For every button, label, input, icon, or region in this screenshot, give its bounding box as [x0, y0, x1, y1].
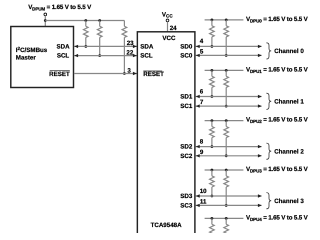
- wire SC1: [196, 105, 262, 107]
- junction VDPUM rail tap: [44, 19, 47, 22]
- svg-text:11: 11: [200, 198, 207, 205]
- svg-text:Channel 1: Channel 1: [274, 99, 304, 106]
- junction ch0 SD: [211, 45, 214, 48]
- junction ch3 SD pull-up top: [211, 169, 214, 172]
- resistor R2 (SCL pull-up): [97, 21, 102, 56]
- wire VDPUM rail: [45, 20, 124, 22]
- junction ch1 SD: [211, 95, 214, 98]
- arrow SC2 into pin 9: [196, 154, 200, 157]
- junction ch0 SD pull-up top: [211, 19, 214, 22]
- junction ch1 SD pull-up top: [211, 69, 214, 72]
- resistor R1 (SDA pull-up): [84, 21, 89, 47]
- svg-text:SC0: SC0: [180, 52, 193, 59]
- terminal VDPUM: [44, 13, 47, 16]
- arrow RESET into pin 3: [133, 72, 137, 75]
- arrow SCL into master: [74, 54, 78, 57]
- resistor R3 (RESET pull-up): [122, 21, 127, 74]
- junction R1 top: [84, 19, 87, 22]
- junction ch0 SC pull-up top: [225, 19, 228, 22]
- arrow SD0 into pin 4: [196, 45, 200, 48]
- svg-text:RESET: RESET: [49, 71, 70, 78]
- junction ch3 SD: [211, 195, 214, 198]
- wire VDPU2 rail: [205, 120, 244, 122]
- TCA9548A box: [137, 32, 195, 238]
- wire VDPU1 rail: [205, 69, 244, 71]
- junction R3-RESET: [123, 72, 126, 75]
- resistor ch3 SD pull-up: [210, 170, 215, 196]
- wire SC2: [196, 155, 262, 157]
- arrow SC1 into pin 7: [196, 104, 200, 107]
- svg-text:22: 22: [126, 50, 133, 57]
- svg-text:6: 6: [200, 88, 204, 95]
- arrow SCL into pin 22: [133, 54, 137, 57]
- wire SD3: [196, 195, 262, 197]
- svg-text:TCA9548A: TCA9548A: [151, 222, 182, 229]
- svg-text:SDA: SDA: [140, 43, 154, 50]
- terminal VCC: [166, 19, 169, 22]
- junction ch1 SC: [225, 105, 228, 108]
- svg-text:8: 8: [200, 138, 204, 145]
- resistor ch3 SC pull-up: [224, 170, 229, 205]
- arrow SC3 to channel: [258, 204, 262, 207]
- wire SD0: [196, 45, 262, 47]
- svg-text:Channel 3: Channel 3: [274, 198, 304, 205]
- junction ch3 SC pull-up top: [225, 169, 228, 172]
- svg-text:4: 4: [200, 38, 204, 45]
- brace channel 0: [266, 43, 271, 59]
- arrow SD1 into pin 6: [196, 95, 200, 98]
- svg-text:24: 24: [170, 25, 177, 32]
- junction ch2 SD: [211, 145, 214, 148]
- svg-text:9: 9: [200, 149, 204, 156]
- brace channel 2: [266, 143, 271, 159]
- junction ch4 SC pull-up top: [225, 217, 228, 220]
- brace channel 3: [266, 193, 271, 209]
- junction R2-SCL: [98, 54, 101, 57]
- arrow SD0 to channel: [258, 45, 262, 48]
- junction ch2 SC pull-up top: [225, 119, 228, 122]
- wire SCL: [74, 55, 137, 57]
- resistor ch2 SC pull-up: [224, 121, 229, 156]
- junction ch3 SC: [225, 204, 228, 207]
- arrow SDA into master: [74, 45, 78, 48]
- junction ch2 SD pull-up top: [211, 119, 214, 122]
- svg-text:SD2: SD2: [180, 144, 193, 151]
- junction R2 top: [98, 19, 101, 22]
- arrow SD1 to channel: [258, 95, 262, 98]
- arrow SC2 to channel: [258, 154, 262, 157]
- wire SDA: [74, 45, 137, 47]
- wire SD2: [196, 146, 262, 148]
- svg-text:RESET: RESET: [143, 71, 164, 78]
- arrow SC0 into pin 5: [196, 54, 200, 57]
- svg-text:SCL: SCL: [140, 53, 153, 60]
- wire VDPU4 rail: [205, 217, 244, 219]
- arrow SC1 to channel: [258, 104, 262, 107]
- arrow SC3 into pin 11: [196, 204, 200, 207]
- junction R1-SDA: [84, 45, 87, 48]
- resistor ch1 SC pull-up: [224, 70, 229, 106]
- resistor ch4 SD pull-up (cropped): [210, 218, 215, 235]
- svg-text:VCC: VCC: [162, 35, 176, 42]
- svg-text:SC2: SC2: [180, 153, 193, 160]
- svg-text:3: 3: [127, 67, 131, 74]
- svg-text:SCL: SCL: [57, 53, 70, 60]
- brace channel 1: [266, 93, 271, 109]
- svg-text:7: 7: [200, 99, 204, 106]
- wire SD1: [196, 96, 262, 98]
- wire SC3: [196, 204, 262, 206]
- junction ch4 SD pull-up top: [211, 217, 214, 220]
- wire RESET: [74, 73, 137, 75]
- wire VDPUM drop to master VCC: [44, 16, 46, 27]
- svg-text:SD1: SD1: [180, 94, 193, 101]
- wire VCC drop: [167, 22, 169, 32]
- svg-text:SC3: SC3: [180, 202, 193, 209]
- resistor ch2 SD pull-up: [210, 121, 215, 147]
- arrow SD3 into pin 10: [196, 194, 200, 197]
- I2C/SMBus Master box: [11, 27, 74, 88]
- resistor ch1 SD pull-up: [210, 70, 215, 96]
- resistor ch4 SC pull-up (cropped): [224, 218, 229, 235]
- svg-text:23: 23: [127, 40, 134, 47]
- resistor ch0 SC pull-up: [224, 20, 229, 56]
- arrow SD3 to channel: [258, 194, 262, 197]
- arrow SC0 to channel: [258, 54, 262, 57]
- svg-text:Channel 2: Channel 2: [274, 148, 304, 155]
- svg-text:5: 5: [200, 48, 204, 55]
- junction ch2 SC: [225, 154, 228, 157]
- svg-text:SD0: SD0: [180, 43, 193, 50]
- arrow SD2 into pin 8: [196, 145, 200, 148]
- svg-text:Master: Master: [16, 54, 37, 61]
- junction ch1 SC pull-up top: [225, 69, 228, 72]
- svg-text:SC1: SC1: [180, 103, 193, 110]
- svg-text:10: 10: [200, 188, 207, 195]
- svg-text:SD3: SD3: [180, 193, 193, 200]
- wire VDPU0 rail: [205, 19, 244, 21]
- arrow SD2 to channel: [258, 145, 262, 148]
- svg-text:SDA: SDA: [57, 43, 71, 50]
- svg-text:I2C/SMBus: I2C/SMBus: [16, 46, 48, 54]
- resistor ch0 SD pull-up: [210, 20, 215, 47]
- svg-text:Channel 0: Channel 0: [274, 48, 304, 55]
- wire SC0: [196, 54, 262, 56]
- junction ch0 SC: [225, 54, 228, 57]
- wire VDPU3 rail: [205, 169, 244, 171]
- arrow SDA into pin 23: [133, 45, 137, 48]
